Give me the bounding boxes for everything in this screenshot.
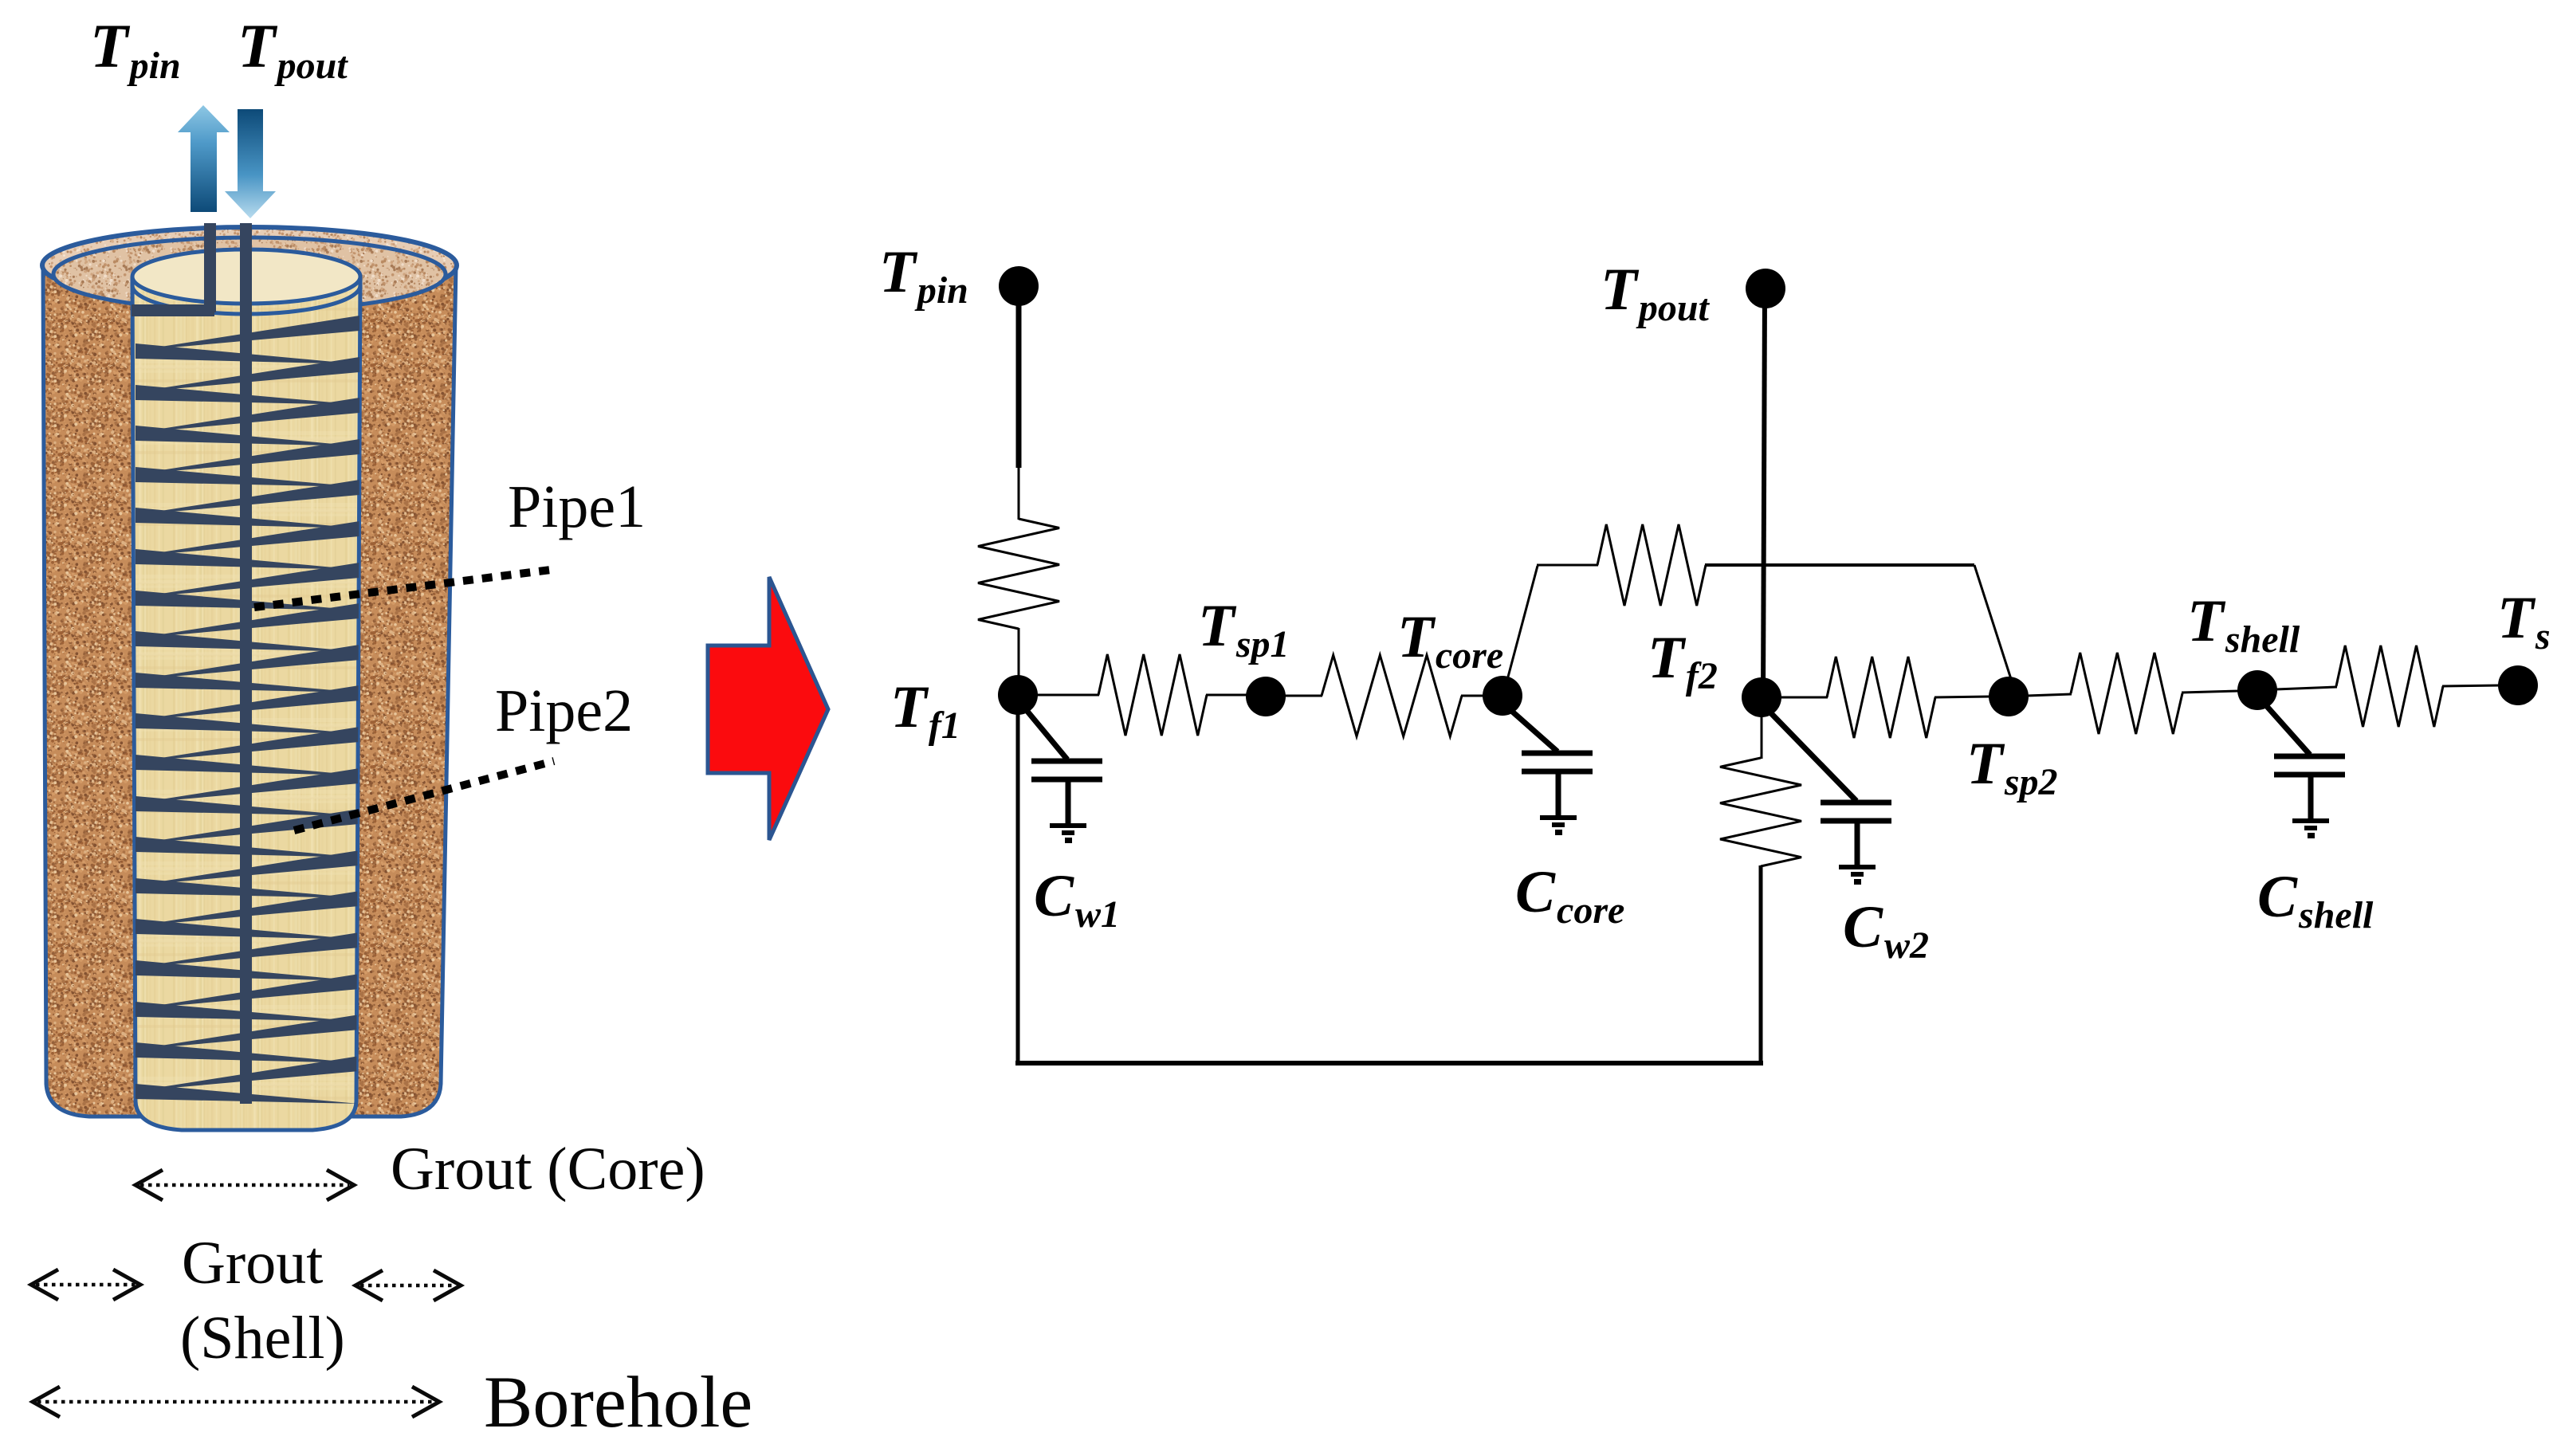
svg-text:Tf2: Tf2: [1648, 625, 1718, 697]
svg-text:Ccore: Ccore: [1515, 859, 1624, 932]
svg-text:Tpin: Tpin: [879, 239, 968, 312]
svg-text:Tpout: Tpout: [238, 11, 348, 87]
svg-text:Tf1: Tf1: [890, 674, 960, 747]
svg-text:(Shell): (Shell): [180, 1305, 345, 1372]
svg-text:Grout (Core): Grout (Core): [391, 1136, 705, 1203]
svg-text:Tsp2: Tsp2: [1966, 731, 2058, 803]
svg-text:Ts: Ts: [2497, 585, 2551, 657]
svg-text:Borehole: Borehole: [484, 1361, 752, 1442]
svg-text:Tpin: Tpin: [90, 11, 181, 87]
svg-text:Cw1: Cw1: [1034, 863, 1120, 936]
svg-text:Tcore: Tcore: [1397, 604, 1503, 677]
svg-text:Tshell: Tshell: [2187, 588, 2300, 661]
svg-text:Tpout: Tpout: [1601, 257, 1711, 329]
svg-text:Tsp1: Tsp1: [1198, 593, 1290, 665]
svg-text:Grout: Grout: [182, 1230, 323, 1297]
svg-text:Pipe1: Pipe1: [508, 473, 646, 540]
svg-text:Cshell: Cshell: [2257, 864, 2374, 936]
svg-text:Cw2: Cw2: [1843, 894, 1929, 967]
svg-text:Pipe2: Pipe2: [495, 677, 633, 744]
